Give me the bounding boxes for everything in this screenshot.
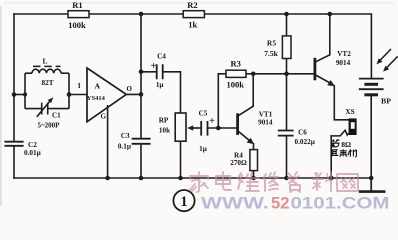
wire C6 top lead	[286, 74, 288, 131]
transistor VT1 9014	[238, 106, 273, 144]
wire XS ground side down to rail	[330, 136, 332, 178]
jack XS	[331, 108, 356, 136]
watermark url www.520101.com	[201, 195, 390, 213]
svg-text:5~200P: 5~200P	[38, 122, 61, 130]
svg-text:YS414: YS414	[87, 95, 106, 102]
svg-text:0.01µ: 0.01µ	[24, 149, 42, 157]
svg-text:100k: 100k	[226, 79, 244, 89]
svg-text:270Ω: 270Ω	[230, 159, 247, 167]
wire C4 left lead	[141, 71, 156, 73]
wire bias node to VT2 base	[253, 73, 314, 75]
wire R3 left drop to C5 node	[217, 74, 219, 128]
svg-text:1µ: 1µ	[156, 81, 165, 89]
svg-text:C1: C1	[52, 112, 61, 120]
capacitor C2	[4, 141, 41, 157]
wire VT2 emitter down and right to jack	[334, 86, 348, 120]
transistor VT2 9014	[315, 50, 351, 86]
svg-text:XS: XS	[345, 108, 354, 116]
capacitor C4	[151, 53, 167, 90]
svg-text:+: +	[209, 116, 215, 127]
wire VT2 collector up to rail	[329, 14, 331, 55]
svg-text:R1: R1	[72, 0, 82, 10]
wire VT1 emitter down to R4	[253, 144, 255, 150]
wire feedback vertical below C3	[140, 144, 142, 178]
scan artifact top edge	[4, 2, 394, 3]
svg-text:1: 1	[180, 194, 187, 210]
scan artifact left edge	[0, 6, 2, 206]
capacitor C1 variable	[25, 97, 69, 130]
svg-text:52: 52	[271, 195, 290, 213]
resistor R5	[264, 36, 291, 59]
svg-text:RP: RP	[159, 116, 169, 124]
wire top rail right segment to battery corner	[204, 14, 371, 78]
op-amp U1 YS414	[78, 68, 133, 122]
svg-text:R2: R2	[187, 0, 197, 10]
svg-text:0101.COM: 0101.COM	[291, 195, 390, 213]
svg-text:9014: 9014	[336, 59, 351, 67]
svg-text:VT2: VT2	[337, 50, 351, 58]
svg-text:1k: 1k	[188, 19, 197, 29]
light arrow 2	[383, 56, 398, 71]
svg-text:C4: C4	[157, 53, 166, 61]
resistor R1	[68, 0, 89, 30]
wire C6 bottom lead	[286, 136, 288, 178]
wire VT1 collector up to R3 node	[252, 74, 254, 106]
wire R5 top lead	[286, 14, 288, 36]
svg-text:10k: 10k	[159, 126, 170, 134]
svg-text:8Ω: 8Ω	[341, 140, 351, 149]
watermark chinese 家电维修资料网	[190, 172, 358, 192]
svg-text:C5: C5	[199, 110, 208, 118]
resistor R4	[230, 150, 257, 171]
wire C5 right lead to VT1 base	[208, 127, 237, 129]
wire R3 right lead	[246, 73, 253, 75]
wire left vertical below C2	[13, 146, 15, 178]
resistor R2	[183, 0, 204, 29]
wire R4 bottom lead	[253, 171, 255, 178]
circled figure number 1	[173, 190, 194, 211]
light arrow 1	[376, 49, 391, 64]
svg-text:I: I	[78, 82, 81, 90]
svg-text:BP: BP	[381, 97, 391, 106]
wire bottom rail	[14, 177, 371, 179]
wire top rail between R1 and R2	[89, 13, 183, 15]
label 接8Ω (connect 8 ohm)	[331, 139, 339, 147]
wire tank to op-amp input	[69, 94, 87, 96]
inductor L tank loop	[25, 66, 69, 108]
svg-text:R5: R5	[267, 39, 276, 48]
wire C4 right lead down to RP	[163, 72, 181, 113]
svg-text:1µ: 1µ	[199, 145, 208, 153]
svg-text:C3: C3	[121, 132, 130, 140]
wire top rail left segment	[14, 13, 68, 15]
node junction dots	[12, 12, 374, 181]
svg-text:A: A	[95, 81, 101, 90]
资	[288, 172, 300, 192]
svg-text:0.022µ: 0.022µ	[295, 138, 316, 146]
capacitor C3	[118, 132, 151, 150]
svg-text:O: O	[126, 85, 132, 93]
svg-text:0.1µ: 0.1µ	[118, 142, 132, 150]
修	[263, 172, 278, 191]
wire feedback vertical above C3	[140, 14, 142, 139]
wire tank left connector	[14, 94, 25, 96]
svg-text:L: L	[42, 56, 47, 65]
svg-text:+: +	[151, 61, 157, 72]
svg-text:WWW.: WWW.	[201, 195, 269, 213]
维	[238, 172, 259, 191]
svg-text:82T: 82T	[42, 79, 54, 87]
wire left vertical above C2	[13, 14, 15, 141]
wire R5 bottom lead	[286, 59, 288, 74]
网	[337, 174, 358, 191]
wire RP bottom lead	[180, 141, 182, 178]
电	[216, 172, 231, 190]
家	[190, 172, 208, 192]
svg-text:9014: 9014	[258, 118, 273, 126]
svg-text:100k: 100k	[68, 20, 86, 30]
resistor R3	[226, 59, 246, 90]
wire R3 left lead	[218, 73, 226, 75]
wire op-amp G pin down	[107, 106, 109, 178]
svg-text:VT1: VT1	[259, 111, 273, 119]
svg-text:C2: C2	[28, 141, 37, 149]
wire battery negative down to rail	[370, 95, 372, 178]
svg-text:R3: R3	[231, 59, 241, 69]
ground	[359, 178, 386, 192]
料	[312, 172, 331, 191]
capacitor C6	[278, 129, 316, 147]
wire op-amp output	[126, 93, 141, 95]
capacitor C5	[199, 110, 216, 154]
svg-text:C6: C6	[298, 129, 307, 137]
battery BP photocell	[359, 79, 391, 106]
svg-text:G: G	[100, 113, 106, 121]
label 耳塞机 (earphone)	[331, 149, 357, 157]
svg-text:7.5k: 7.5k	[264, 49, 278, 58]
potentiometer RP	[159, 113, 201, 141]
